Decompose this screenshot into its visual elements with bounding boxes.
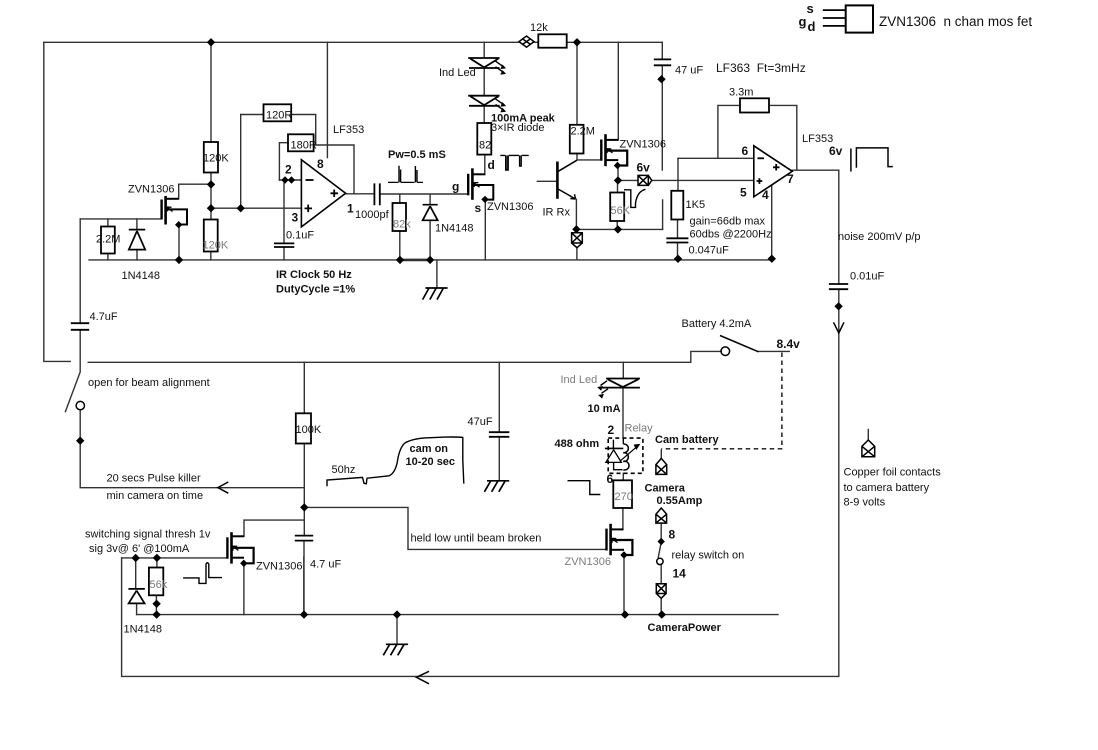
svg-text:0.047uF: 0.047uF [689,245,730,257]
svg-text:7: 7 [787,172,794,186]
svg-text:ZVN1306 n chan mos fet: ZVN1306 n chan mos fet [879,14,1032,29]
svg-text:56K: 56K [611,205,631,217]
svg-text:12k: 12k [530,22,548,34]
svg-text:50hz: 50hz [332,464,356,476]
svg-text:s: s [807,1,814,16]
svg-text:0.01uF: 0.01uF [850,271,885,283]
svg-text:to camera battery: to camera battery [844,482,930,494]
svg-text:60dbs @2200Hz: 60dbs @2200Hz [690,229,772,241]
svg-text:relay switch on: relay switch on [672,550,745,562]
svg-text:g: g [452,180,459,194]
svg-text:1N4148: 1N4148 [435,223,474,235]
svg-text:6v: 6v [829,144,843,158]
svg-text:8: 8 [669,528,676,542]
svg-text:2.2M: 2.2M [96,234,120,246]
svg-text:d: d [488,158,495,172]
svg-text:1N4148: 1N4148 [124,624,163,636]
svg-text:ZVN1306: ZVN1306 [128,184,174,196]
svg-text:switching signal thresh 1v: switching signal thresh 1v [85,529,211,541]
svg-text:gain=66db max: gain=66db max [690,216,766,228]
svg-text:d: d [808,19,816,34]
svg-text:2.2M: 2.2M [571,126,595,138]
svg-text:120K: 120K [203,153,229,165]
svg-text:ZVN1306: ZVN1306 [620,139,666,151]
svg-text:ZVN1306: ZVN1306 [487,201,533,213]
svg-text:47 uF: 47 uF [675,65,703,77]
svg-text:6: 6 [607,472,614,486]
svg-text:82: 82 [479,140,491,152]
svg-text:180R: 180R [291,140,317,152]
svg-text:Ind Led: Ind Led [561,374,598,386]
svg-text:Pw=0.5 mS: Pw=0.5 mS [388,149,446,161]
svg-text:1000pf: 1000pf [355,209,390,221]
svg-text:Camera: Camera [645,483,686,495]
svg-text:LF353: LF353 [333,124,364,136]
svg-text:10 mA: 10 mA [588,403,621,415]
svg-text:LF363 Ft=3mHz: LF363 Ft=3mHz [716,61,806,75]
svg-text:120R: 120R [266,110,292,122]
svg-text:cam on: cam on [410,443,449,455]
svg-text:ZVN1306: ZVN1306 [256,561,302,573]
svg-text:2: 2 [608,423,615,437]
svg-text:CameraPower: CameraPower [648,622,722,634]
svg-text:3.3m: 3.3m [729,87,753,99]
svg-text:14: 14 [673,567,687,581]
svg-text:Copper foil contacts: Copper foil contacts [844,467,942,479]
svg-text:0.1uF: 0.1uF [286,230,314,242]
svg-text:82k: 82k [393,219,411,231]
svg-text:270: 270 [615,491,633,503]
svg-text:3×IR diode: 3×IR diode [491,122,545,134]
svg-text:8: 8 [317,157,324,171]
svg-text:20 secs Pulse killer: 20 secs Pulse killer [107,473,201,485]
svg-text:4: 4 [762,188,769,202]
svg-text:56k: 56k [150,579,168,591]
svg-text:8.4v: 8.4v [777,337,801,351]
svg-text:0.55Amp: 0.55Amp [657,495,703,507]
svg-text:open for beam alignment: open for beam alignment [88,377,210,389]
svg-text:noise 200mV p/p: noise 200mV p/p [838,231,921,243]
svg-text:3: 3 [292,211,299,225]
svg-text:Relay: Relay [625,423,654,435]
svg-text:g: g [799,14,807,29]
svg-text:held low until beam broken: held low until beam broken [411,533,542,545]
svg-text:sig 3v@ 6' @100mA: sig 3v@ 6' @100mA [89,543,190,555]
svg-text:Battery 4.2mA: Battery 4.2mA [682,318,752,330]
svg-text:IR Rx: IR Rx [543,207,571,219]
svg-text:DutyCycle =1%: DutyCycle =1% [276,284,355,296]
svg-text:1: 1 [347,202,354,216]
svg-text:100K: 100K [296,424,322,436]
svg-text:4.7 uF: 4.7 uF [310,559,341,571]
svg-text:IR Clock 50 Hz: IR Clock 50 Hz [276,269,352,281]
svg-text:2: 2 [285,163,292,177]
svg-text:5: 5 [740,186,747,200]
svg-text:ZVN1306: ZVN1306 [565,556,611,568]
svg-text:47uF: 47uF [468,416,493,428]
svg-text:8-9 volts: 8-9 volts [844,497,886,509]
svg-text:s: s [475,201,482,215]
svg-text:min camera on time: min camera on time [107,490,204,502]
svg-text:120K: 120K [203,240,229,252]
svg-text:Cam battery: Cam battery [655,434,719,446]
svg-text:10-20 sec: 10-20 sec [406,456,456,468]
svg-text:6v: 6v [637,161,651,175]
svg-text:1N4148: 1N4148 [122,270,161,282]
svg-text:6: 6 [742,144,749,158]
svg-text:4.7uF: 4.7uF [90,311,118,323]
svg-text:488 ohm: 488 ohm [555,438,600,450]
svg-text:Ind Led: Ind Led [439,67,476,79]
svg-text:1K5: 1K5 [686,199,706,211]
